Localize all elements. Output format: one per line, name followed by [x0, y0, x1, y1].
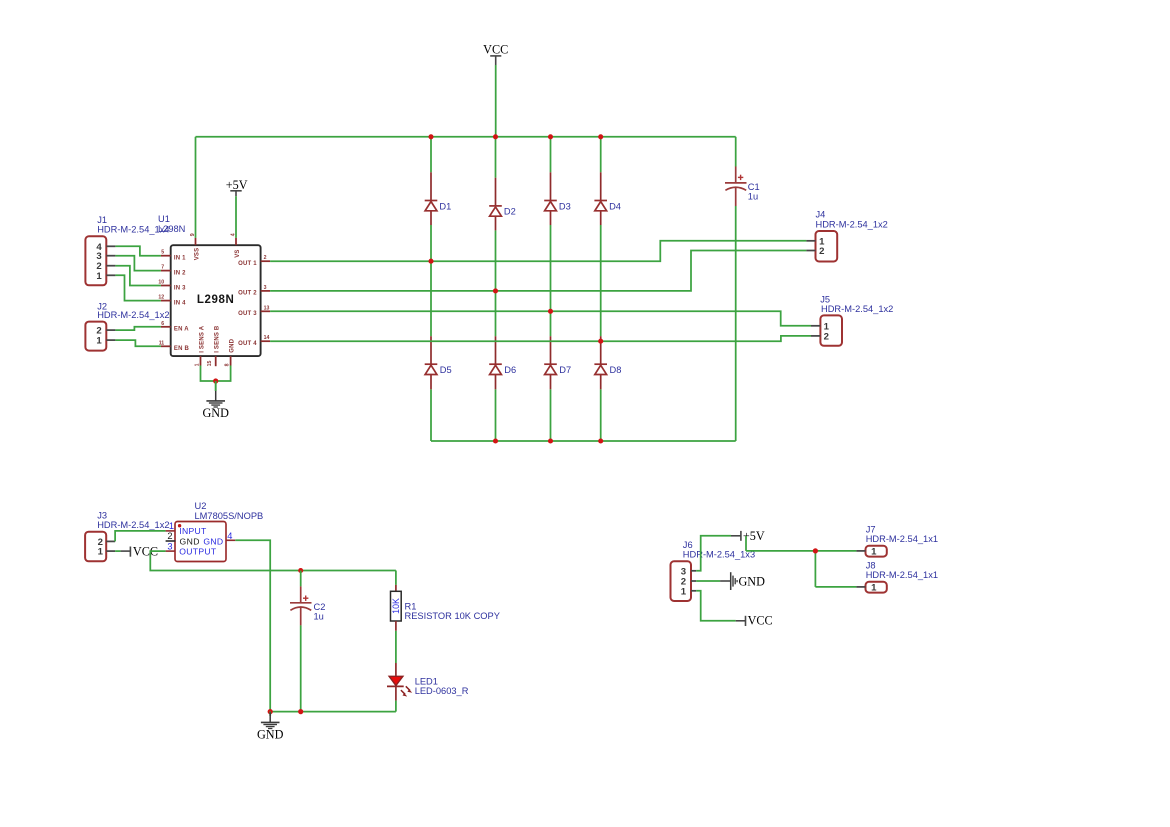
svg-text:D5: D5	[440, 365, 452, 375]
wire column D4/D8 (x=600.7)	[600, 137, 602, 441]
label J2 HDR-M-2.54_1x2	[97, 301, 169, 320]
U1 pin 10 IN 3 (left)	[158, 280, 186, 292]
junction dots on bottom bus	[493, 438, 603, 443]
connector J7	[866, 546, 887, 558]
svg-text:1: 1	[871, 583, 877, 594]
capacitor C1	[725, 167, 747, 207]
U1 pin 2 OUT 1 (right)	[238, 255, 270, 267]
svg-text:J6: J6	[683, 540, 693, 550]
power port +5V (at J6)	[731, 529, 765, 543]
wire LED1 to ground bus	[395, 701, 397, 712]
svg-text:12: 12	[158, 295, 164, 301]
svg-text:HDR-M-2.54_1x2: HDR-M-2.54_1x2	[821, 304, 893, 314]
svg-text:HDR-M-2.54_1x3: HDR-M-2.54_1x3	[683, 550, 755, 560]
svg-text:OUT 1: OUT 1	[238, 261, 257, 267]
svg-text:U2: U2	[195, 501, 207, 511]
wire J3.1 to VCC port	[115, 550, 121, 552]
diode D4	[594, 172, 621, 225]
junction OUT2/D2	[493, 288, 498, 293]
label J3 HDR-M-2.54_1x2	[97, 510, 169, 530]
svg-text:D2: D2	[504, 207, 516, 217]
diode D3	[544, 172, 571, 225]
resistor R1 10K	[391, 585, 402, 631]
wire U1 ground net	[201, 366, 231, 392]
J1 pin 4 stub	[106, 245, 115, 247]
svg-text:2: 2	[264, 255, 267, 261]
ground symbol below U1	[202, 381, 229, 420]
svg-text:GND: GND	[203, 536, 223, 546]
wire J6.3 to +5V port	[696, 536, 731, 571]
J6 pin 1 stub	[691, 590, 696, 592]
J1 pin 1 stub	[106, 274, 115, 276]
wire top VCC bus	[196, 136, 736, 138]
svg-text:I SENS B: I SENS B	[215, 325, 221, 353]
svg-text:10K: 10K	[391, 598, 401, 614]
U2 pin 1 INPUT stub	[166, 521, 175, 531]
capacitor C2	[290, 586, 312, 625]
svg-text:IN 3: IN 3	[174, 285, 186, 291]
J7 pin 1 stub	[856, 550, 865, 552]
svg-text:VSS: VSS	[195, 248, 201, 261]
svg-text:D4: D4	[609, 201, 621, 211]
diode D8	[594, 336, 621, 389]
svg-text:+5V: +5V	[226, 178, 248, 192]
svg-text:HDR-M-2.54_1x4: HDR-M-2.54_1x4	[97, 225, 169, 235]
junction OUT3/D3	[548, 309, 553, 314]
junction ground bus / U2 GND	[268, 709, 273, 714]
diode D5	[425, 336, 452, 389]
svg-text:OUT 3: OUT 3	[238, 311, 257, 317]
svg-text:15: 15	[207, 361, 213, 367]
svg-text:D1: D1	[439, 201, 451, 211]
label J8 HDR-M-2.54_1x1	[866, 561, 938, 581]
wire VCC drop to top bus	[495, 65, 497, 137]
wire net OUT2 (U1.3 to J4.2)	[270, 251, 806, 291]
wire J3.2 to U2 INPUT	[115, 531, 166, 542]
U1 pins 9 VSS and 4 VS (top)	[190, 233, 241, 260]
connector J6	[671, 561, 692, 601]
svg-text:6: 6	[161, 321, 164, 327]
svg-text:EN B: EN B	[174, 346, 190, 352]
svg-text:VCC: VCC	[748, 614, 773, 628]
LED LED1	[387, 663, 412, 701]
svg-text:1u: 1u	[748, 191, 758, 201]
wire +5V to U1 pin 4	[235, 196, 237, 238]
diode D7	[544, 336, 571, 389]
label J5 HDR-M-2.54_1x2	[820, 295, 893, 315]
svg-text:2: 2	[167, 531, 172, 541]
J5 pin 1 stub	[811, 325, 820, 327]
label J1 HDR-M-2.54_1x4	[97, 215, 169, 235]
wire net +5VREG (U2 OUTPUT rail)	[150, 551, 396, 570]
junction dots on top bus	[428, 134, 603, 139]
label U2 LM7805S/NOPB	[195, 501, 264, 521]
label J7 HDR-M-2.54_1x1	[866, 525, 938, 545]
svg-text:1: 1	[96, 336, 102, 347]
svg-text:GND: GND	[202, 406, 229, 420]
wire C1 column	[735, 137, 737, 441]
wire column D2/D6 (x=495.5)	[495, 137, 497, 441]
junction +5V / J8 branch	[813, 548, 818, 553]
svg-text:D7: D7	[559, 365, 571, 375]
wire net OUT4 (U1.14 to J5.2)	[270, 336, 811, 341]
svg-text:3: 3	[167, 541, 172, 551]
svg-text:1: 1	[871, 547, 877, 558]
wire column D3/D7 (x=550.5)	[550, 137, 552, 441]
power port VCC (at J3)	[121, 544, 158, 558]
wire J1.4 to IN1	[115, 246, 160, 255]
J2 pin 1 stub	[106, 339, 115, 341]
svg-text:J1: J1	[97, 215, 107, 225]
svg-text:14: 14	[264, 335, 270, 341]
wire R1 column top	[395, 571, 397, 585]
J1 pin 2 stub	[106, 265, 115, 267]
svg-text:J8: J8	[866, 561, 876, 571]
connector J3	[85, 532, 106, 562]
svg-text:5: 5	[161, 250, 164, 256]
J6 pin 3 stub	[691, 570, 696, 572]
svg-text:11: 11	[159, 340, 165, 346]
svg-text:RESISTOR 10K COPY: RESISTOR 10K COPY	[405, 611, 500, 621]
svg-text:VCC: VCC	[483, 42, 508, 56]
diode D2	[489, 178, 516, 231]
J8 pin 1 stub	[856, 586, 865, 588]
J3 pin 2 stub	[106, 540, 115, 542]
svg-text:HDR-M-2.54_1x2: HDR-M-2.54_1x2	[97, 310, 169, 320]
svg-text:LED1: LED1	[415, 677, 438, 687]
svg-text:3: 3	[264, 285, 267, 291]
svg-text:HDR-M-2.54_1x1: HDR-M-2.54_1x1	[866, 534, 938, 544]
junction OUT4/D4	[598, 339, 603, 344]
svg-text:L298N: L298N	[197, 294, 235, 306]
wire J1.3 to IN2	[115, 256, 160, 271]
svg-text:HDR-M-2.54_1x1: HDR-M-2.54_1x1	[866, 570, 938, 580]
junction below U1	[213, 378, 218, 383]
svg-text:LM7805S/NOPB: LM7805S/NOPB	[195, 511, 264, 521]
U1 pin 11 EN B (left)	[159, 340, 190, 352]
connector J2	[85, 322, 106, 351]
wire column D1/D5 (x=431.0)	[430, 137, 432, 441]
wire J6.1 to VCC port	[696, 591, 736, 621]
regulator U2 LM7805S/NOPB body	[175, 522, 226, 562]
svg-text:1: 1	[98, 547, 104, 558]
J2 pin 2 stub	[106, 329, 115, 331]
svg-text:J7: J7	[866, 525, 876, 535]
svg-text:8: 8	[225, 363, 231, 366]
J1 pin 3 stub	[106, 255, 115, 257]
label R1 RESISTOR 10K COPY	[405, 601, 500, 621]
wire J6.2 to GND port	[696, 580, 720, 582]
svg-text:J4: J4	[816, 210, 826, 220]
diode D6	[489, 336, 516, 389]
wire net OUT1 (U1.2 to J4.1)	[270, 241, 806, 261]
svg-text:13: 13	[264, 305, 270, 311]
power port VCC (top)	[483, 42, 508, 65]
diode D1	[425, 172, 452, 225]
junction C2 top	[298, 568, 303, 573]
svg-text:IN 4: IN 4	[174, 300, 186, 306]
U1 pin 13 OUT 3 (right)	[238, 305, 270, 317]
svg-text:IN 1: IN 1	[174, 256, 186, 262]
U1 pin 6 EN A (left)	[161, 321, 189, 333]
svg-text:1u: 1u	[314, 611, 324, 621]
wire C2 column top	[300, 571, 302, 587]
U1 pin 5 IN 1 (left)	[161, 250, 186, 262]
svg-text:4: 4	[227, 531, 232, 541]
wire bottom-left ground bus	[270, 711, 396, 713]
ground symbol bottom-left	[257, 712, 284, 742]
wire net OUT3 (U1.13 to J5.1)	[270, 311, 811, 326]
J3 pin 1 stub	[106, 550, 115, 552]
connector J5	[820, 315, 842, 345]
U1 pin 12 IN 4 (left)	[158, 295, 186, 307]
wire J1.2 to IN3	[115, 266, 160, 286]
wire R1 to LED1	[395, 631, 397, 663]
wire U2.4 GND down to ground bus	[235, 540, 270, 711]
svg-text:GND: GND	[739, 574, 766, 588]
U1 pin 7 IN 2 (left)	[161, 265, 186, 277]
op-amp U1 L298N body	[171, 245, 261, 356]
svg-text:2: 2	[824, 331, 829, 342]
label J6 HDR-M-2.54_1x3	[683, 540, 755, 560]
svg-text:7: 7	[161, 265, 164, 271]
label LED1 LED-0603_R	[415, 677, 469, 697]
svg-text:R1: R1	[405, 601, 417, 611]
svg-text:U1: U1	[158, 214, 170, 224]
svg-text:9: 9	[190, 233, 196, 236]
svg-text:VS: VS	[235, 249, 241, 257]
U2 pin 3 OUTPUT stub	[166, 541, 175, 551]
wire VSS drop (bus to U1 pin 9)	[195, 137, 197, 238]
svg-text:4: 4	[230, 233, 236, 236]
svg-text:HDR-M-2.54_1x2: HDR-M-2.54_1x2	[816, 219, 888, 229]
wire J2.2 to EN A	[115, 327, 160, 330]
svg-text:1: 1	[169, 521, 174, 531]
svg-text:OUT 2: OUT 2	[238, 291, 257, 297]
svg-text:D6: D6	[504, 365, 516, 375]
label U1 L298N	[158, 214, 185, 234]
svg-text:J3: J3	[97, 510, 107, 520]
connector J4	[816, 231, 838, 262]
U1 pins 1 I SENS A, 15 I SENS B, 8 GND (bottom)	[194, 325, 235, 366]
U2 pin 2 GND stub	[166, 531, 176, 541]
svg-text:1: 1	[194, 363, 200, 366]
power port GND (at J6)	[720, 572, 765, 590]
svg-text:D3: D3	[559, 201, 571, 211]
svg-text:D8: D8	[610, 365, 622, 375]
svg-text:10: 10	[158, 280, 164, 286]
svg-text:GND: GND	[180, 536, 200, 546]
wire J2.1 to EN B	[115, 340, 160, 346]
J4 pin 1 stub	[806, 240, 815, 242]
junction OUT1/D1	[428, 259, 433, 264]
wire J1.1 to IN4	[115, 275, 160, 300]
J4 pin 2 stub	[806, 250, 815, 252]
label J4 HDR-M-2.54_1x2	[816, 210, 888, 230]
label C1 1u	[748, 182, 760, 201]
power port VCC (at J6)	[736, 614, 773, 628]
J6 pin 2 stub	[691, 580, 696, 582]
svg-text:I SENS A: I SENS A	[199, 325, 205, 353]
label C2 1u	[314, 602, 326, 621]
power port +5V (above U1)	[226, 178, 248, 196]
svg-text:INPUT: INPUT	[179, 526, 207, 536]
U2 pin 4 GND stub (right)	[226, 531, 235, 541]
svg-text:1: 1	[96, 271, 102, 282]
junction ground bus / C2	[298, 709, 303, 714]
svg-text:J5: J5	[820, 295, 830, 305]
svg-text:IN 2: IN 2	[174, 270, 186, 276]
svg-text:OUT 4: OUT 4	[238, 341, 257, 347]
svg-text:OUTPUT: OUTPUT	[179, 547, 217, 557]
svg-text:GND: GND	[230, 338, 236, 352]
svg-text:GND: GND	[257, 727, 284, 741]
U1 pin 3 OUT 2 (right)	[238, 285, 270, 297]
svg-text:HDR-M-2.54_1x2: HDR-M-2.54_1x2	[97, 520, 169, 530]
wire bottom bus	[431, 440, 736, 442]
wire C2 column bottom	[300, 625, 302, 711]
wire +5V to J7/J8	[746, 536, 856, 587]
svg-text:LED-0603_R: LED-0603_R	[415, 686, 469, 696]
svg-text:EN A: EN A	[174, 327, 189, 333]
connector J1	[85, 236, 106, 285]
svg-text:2: 2	[819, 246, 824, 257]
svg-text:1: 1	[681, 586, 687, 597]
J5 pin 2 stub	[811, 335, 820, 337]
U1 pin 14 OUT 4 (right)	[238, 335, 270, 347]
connector J8	[866, 582, 887, 594]
